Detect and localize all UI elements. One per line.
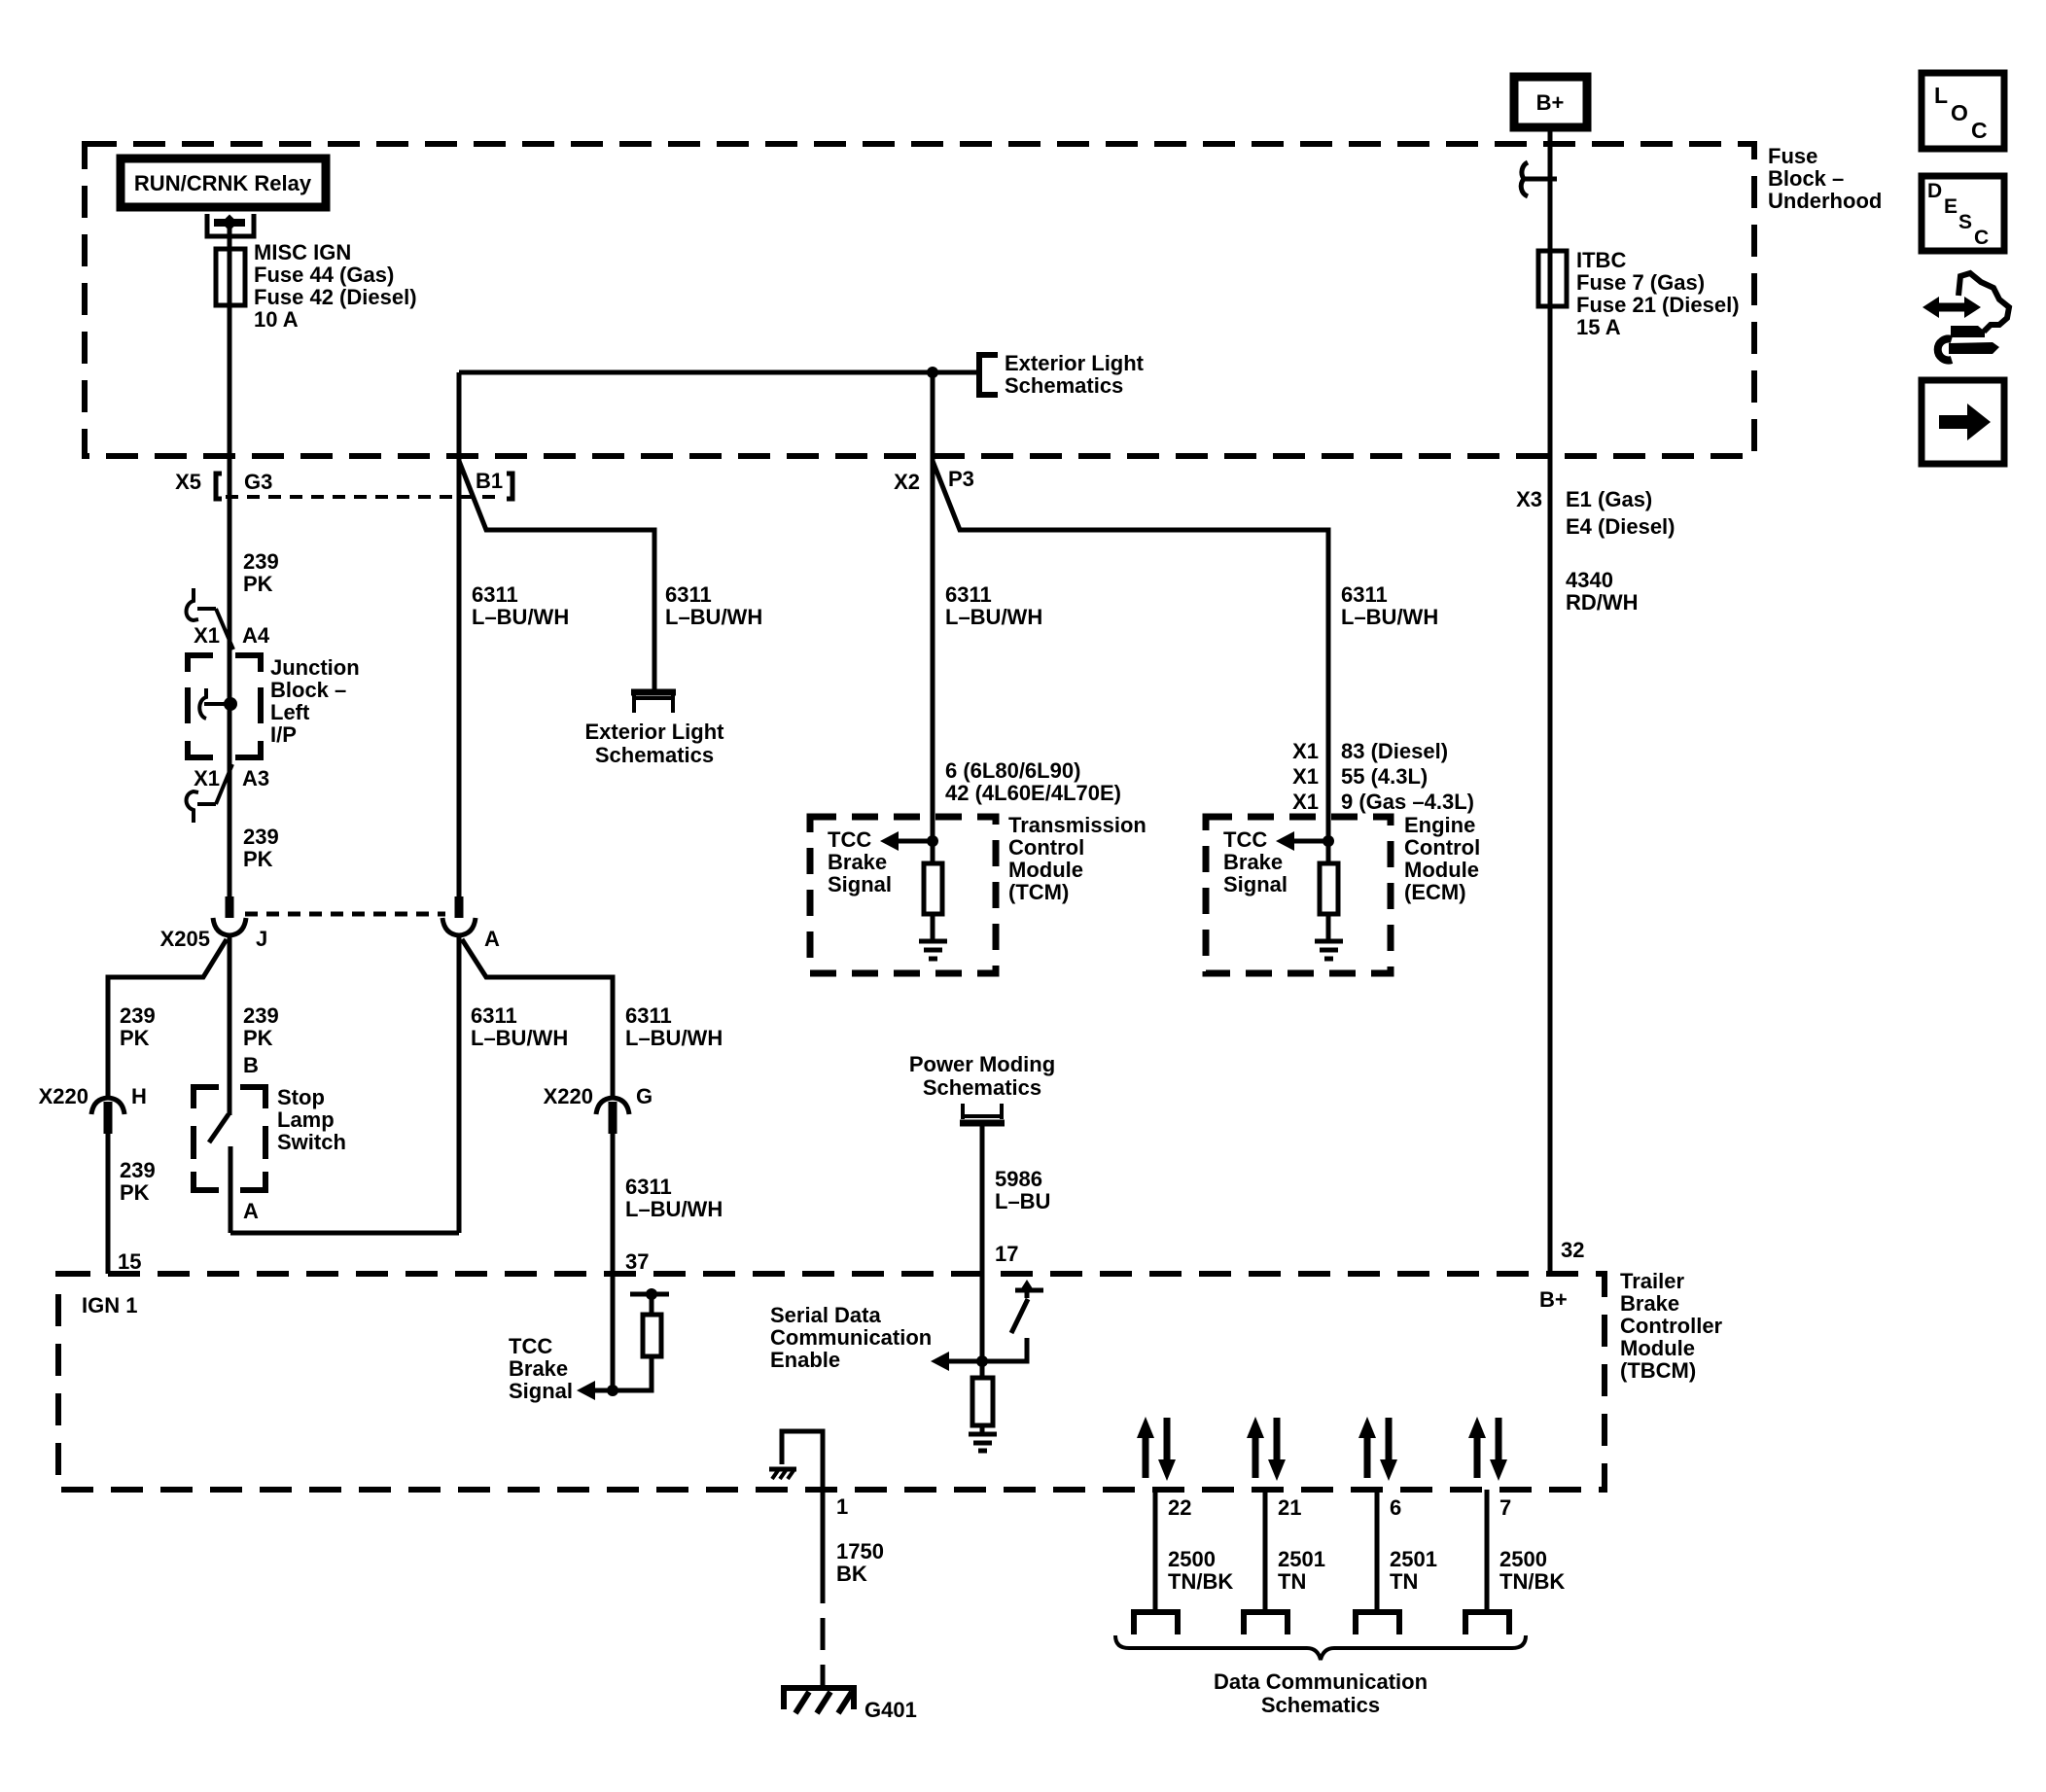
wire P3 offset diagonal to ECM drop	[933, 461, 1328, 841]
svg-text:RD/WH: RD/WH	[1566, 590, 1639, 615]
svg-text:Transmission: Transmission	[1008, 813, 1146, 837]
svg-text:X1: X1	[1292, 739, 1319, 763]
svg-text:Fuse 21 (Diesel): Fuse 21 (Diesel)	[1576, 293, 1740, 317]
svg-text:O: O	[1951, 100, 1968, 125]
wire resistor to ground (TCM)	[931, 914, 935, 940]
svg-text:P3: P3	[948, 467, 974, 491]
svg-text:(ECM): (ECM)	[1404, 880, 1466, 904]
svg-text:Brake: Brake	[1620, 1291, 1679, 1316]
wire junction to exterior light schematics bracket	[933, 370, 976, 375]
svg-text:Block –: Block –	[1768, 166, 1844, 191]
junction block internal connector	[199, 688, 206, 719]
svg-text:6311: 6311	[1341, 582, 1388, 607]
wire J branch to X220 H	[108, 939, 227, 1098]
connector X5/G3 brackets and dotted pass-through	[216, 474, 222, 499]
svg-text:X220: X220	[544, 1084, 593, 1108]
connector X1/A4	[187, 588, 199, 620]
ground (ECM)	[1315, 941, 1343, 959]
svg-text:MISC IGN: MISC IGN	[254, 240, 351, 264]
legend DESC box	[1922, 176, 2004, 251]
svg-text:E1 (Gas): E1 (Gas)	[1566, 487, 1652, 511]
svg-text:B: B	[243, 1053, 259, 1077]
svg-text:B+: B+	[1536, 90, 1565, 115]
svg-text:L–BU/WH: L–BU/WH	[625, 1026, 723, 1050]
RUN/CRNK Relay label box	[121, 158, 326, 207]
svg-text:X2: X2	[894, 470, 920, 494]
svg-text:Fuse 44 (Gas): Fuse 44 (Gas)	[254, 263, 394, 287]
svg-text:A: A	[243, 1199, 259, 1223]
svg-text:D: D	[1927, 180, 1942, 202]
connector X205 A	[455, 896, 464, 918]
svg-text:Switch: Switch	[277, 1130, 346, 1154]
svg-text:239: 239	[243, 549, 279, 574]
resistor (TBCM pin17)	[972, 1378, 993, 1425]
svg-text:L: L	[1934, 83, 1948, 108]
ground (TCM)	[919, 941, 947, 959]
ground G401	[784, 1688, 854, 1709]
legend forward arrow box	[1922, 380, 2004, 464]
wire X3 to TBCM pin 32	[1548, 456, 1553, 1274]
svg-text:42 (4L60E/4L70E): 42 (4L60E/4L70E)	[945, 781, 1121, 805]
svg-text:L–BU: L–BU	[995, 1189, 1050, 1213]
svg-text:I/P: I/P	[270, 722, 297, 747]
fuse block - underhood dashed box	[85, 144, 1754, 456]
svg-text:Module: Module	[1404, 858, 1479, 882]
wire G to TBCM pin 37	[611, 1134, 616, 1274]
wire pin 7 serial data	[1485, 1490, 1490, 1611]
svg-text:Junction: Junction	[270, 655, 360, 680]
serial data communication enable arrow	[948, 1359, 982, 1364]
terminator (pin6)	[1356, 1612, 1399, 1634]
svg-text:9 (Gas –4.3L): 9 (Gas –4.3L)	[1341, 790, 1474, 814]
terminator (pin7)	[1465, 1612, 1509, 1634]
svg-text:A: A	[484, 927, 500, 951]
svg-text:6: 6	[1390, 1495, 1401, 1520]
svg-text:RUN/CRNK Relay: RUN/CRNK Relay	[134, 171, 312, 195]
wire X2 drop from junction	[931, 372, 935, 841]
wire B1 offset diagonal to exterior-light drop	[459, 461, 654, 691]
svg-text:TCC: TCC	[828, 827, 871, 852]
svg-text:Schematics: Schematics	[923, 1075, 1041, 1100]
svg-text:6 (6L80/6L90): 6 (6L80/6L90)	[945, 758, 1080, 783]
svg-text:32: 32	[1561, 1238, 1584, 1262]
svg-text:G: G	[636, 1084, 653, 1108]
splice X205 connector J	[226, 896, 234, 918]
wire switch return to A drop	[230, 1231, 459, 1236]
svg-text:Module: Module	[1008, 858, 1083, 882]
resistor (TBCM pin37)	[643, 1315, 661, 1356]
legend wrench/connector icon	[1923, 273, 2009, 361]
off-page symbol exterior light schematics (drop)	[631, 689, 676, 696]
svg-text:L–BU/WH: L–BU/WH	[472, 605, 569, 629]
svg-text:239: 239	[120, 1158, 156, 1182]
svg-text:2500: 2500	[1168, 1547, 1216, 1571]
svg-text:Stop: Stop	[277, 1085, 325, 1109]
svg-text:S: S	[1958, 211, 1972, 233]
svg-text:L–BU/WH: L–BU/WH	[625, 1197, 723, 1221]
engine control module dashed box	[1206, 817, 1391, 973]
svg-text:X1: X1	[194, 623, 220, 648]
svg-text:Signal: Signal	[509, 1379, 573, 1403]
svg-text:2500: 2500	[1499, 1547, 1547, 1571]
wire power moding to TBCM pin 17	[980, 1126, 985, 1274]
ground (TBCM pin17)	[969, 1434, 997, 1451]
svg-text:7: 7	[1499, 1495, 1511, 1520]
trailer brake controller module dashed box	[58, 1274, 1605, 1490]
svg-text:H: H	[131, 1084, 147, 1108]
svg-text:Schematics: Schematics	[1005, 373, 1123, 398]
wire A branch to X220 G	[462, 939, 613, 1098]
wire pin 22 serial data	[1153, 1490, 1158, 1611]
svg-text:239: 239	[243, 825, 279, 849]
svg-text:5986: 5986	[995, 1167, 1042, 1191]
TCC brake signal arrow (TCM)	[897, 839, 933, 844]
wire resistor to internal rail	[650, 1294, 654, 1315]
svg-text:4340: 4340	[1566, 568, 1613, 592]
svg-text:L–BU/WH: L–BU/WH	[1341, 605, 1438, 629]
svg-text:E4 (Diesel): E4 (Diesel)	[1566, 514, 1676, 539]
resistor (ECM)	[1320, 863, 1338, 914]
svg-text:IGN 1: IGN 1	[82, 1293, 137, 1318]
svg-text:10 A: 10 A	[254, 307, 299, 332]
wire B+ to fusible link	[1548, 127, 1553, 251]
svg-text:A4: A4	[242, 623, 270, 648]
svg-text:Signal: Signal	[828, 872, 892, 896]
svg-text:Module: Module	[1620, 1336, 1695, 1360]
wire into ECM	[1326, 817, 1331, 863]
svg-text:6311: 6311	[665, 582, 712, 607]
svg-text:Trailer: Trailer	[1620, 1269, 1684, 1293]
svg-text:Fuse: Fuse	[1768, 144, 1817, 168]
wire pin 6 serial data	[1375, 1490, 1380, 1611]
wire H to TBCM pin 15	[106, 1134, 111, 1274]
brace data communication	[1115, 1635, 1526, 1660]
svg-text:C: C	[1974, 227, 1989, 249]
svg-text:E: E	[1944, 195, 1958, 218]
svg-text:Schematics: Schematics	[595, 743, 714, 767]
svg-text:2501: 2501	[1278, 1547, 1325, 1571]
fuse ITBC	[1538, 251, 1567, 306]
svg-text:Data Communication: Data Communication	[1214, 1669, 1428, 1694]
svg-text:ITBC: ITBC	[1576, 248, 1626, 272]
svg-text:PK: PK	[243, 572, 273, 596]
wire pin 37 internal	[611, 1274, 616, 1390]
svg-text:G3: G3	[244, 470, 272, 494]
svg-text:B+: B+	[1539, 1287, 1568, 1312]
svg-text:6311: 6311	[625, 1003, 672, 1028]
svg-text:6311: 6311	[625, 1175, 672, 1199]
TCC brake signal arrow (ECM)	[1292, 839, 1328, 844]
wire A down to switch return	[457, 935, 462, 1233]
svg-text:A3: A3	[242, 766, 269, 791]
svg-text:6311: 6311	[945, 582, 992, 607]
svg-text:55 (4.3L): 55 (4.3L)	[1341, 764, 1428, 789]
svg-text:PK: PK	[120, 1026, 150, 1050]
svg-text:Brake: Brake	[509, 1356, 568, 1381]
svg-text:Fuse 42 (Diesel): Fuse 42 (Diesel)	[254, 285, 417, 309]
svg-text:TCC: TCC	[509, 1334, 552, 1358]
terminator (pin22)	[1134, 1612, 1178, 1634]
off-page bracket Exterior Light Schematics (top)	[979, 355, 998, 395]
connector X1/A3	[187, 791, 199, 823]
svg-text:BK: BK	[836, 1562, 867, 1586]
svg-text:(TBCM): (TBCM)	[1620, 1358, 1696, 1383]
internal rail tick with node	[630, 1292, 669, 1297]
svg-text:J: J	[256, 927, 267, 951]
data link arrows pin 21	[1247, 1417, 1286, 1481]
svg-text:Power Moding: Power Moding	[909, 1052, 1055, 1076]
wire pin 21 serial data	[1263, 1490, 1268, 1611]
junction block - left I/P dashed box	[188, 655, 261, 757]
node pin17 junction	[976, 1355, 988, 1367]
wire junction to pull-up resistor (TBCM pin37)	[613, 1356, 652, 1390]
svg-text:37: 37	[625, 1249, 649, 1274]
svg-text:X1: X1	[1292, 790, 1319, 814]
svg-text:15 A: 15 A	[1576, 315, 1621, 339]
wire pin 1 internal to case ground	[782, 1431, 823, 1490]
svg-text:X5: X5	[175, 470, 201, 494]
svg-text:Engine: Engine	[1404, 813, 1475, 837]
svg-text:Enable: Enable	[770, 1348, 840, 1372]
node: top junction wire to exterior light tap	[459, 370, 933, 375]
svg-text:Exterior Light: Exterior Light	[1005, 351, 1145, 375]
wire B1 drop from tap	[457, 372, 462, 918]
svg-text:Communication: Communication	[770, 1325, 932, 1350]
wire pin 1 to G401	[821, 1490, 826, 1603]
svg-text:X3: X3	[1516, 487, 1542, 511]
svg-text:(TCM): (TCM)	[1008, 880, 1069, 904]
svg-text:239: 239	[120, 1003, 156, 1028]
svg-text:L–BU/WH: L–BU/WH	[665, 605, 762, 629]
svg-text:TN/BK: TN/BK	[1168, 1569, 1233, 1594]
svg-text:TN: TN	[1278, 1569, 1306, 1594]
svg-text:Brake: Brake	[1223, 850, 1283, 874]
svg-text:Fuse 7 (Gas): Fuse 7 (Gas)	[1576, 270, 1705, 295]
connector X220 G	[596, 1098, 629, 1114]
node TCM junction	[927, 835, 938, 847]
transmission control module dashed box	[810, 817, 996, 973]
svg-text:PK: PK	[243, 1026, 273, 1050]
svg-text:22: 22	[1168, 1495, 1191, 1520]
svg-text:TCC: TCC	[1223, 827, 1267, 852]
relay contact (RUN/CRNK relay output)	[207, 214, 254, 236]
svg-text:PK: PK	[120, 1180, 150, 1205]
svg-text:2501: 2501	[1390, 1547, 1437, 1571]
svg-text:B1: B1	[476, 469, 503, 493]
svg-text:X1: X1	[194, 766, 220, 791]
connector X220 H	[91, 1098, 124, 1114]
svg-text:Block –: Block –	[270, 678, 346, 702]
svg-text:X1: X1	[1292, 764, 1319, 789]
wire resistor to ground (ECM)	[1326, 914, 1331, 940]
svg-text:6311: 6311	[472, 582, 518, 607]
svg-text:TN/BK: TN/BK	[1499, 1569, 1565, 1594]
node pin37 junction	[607, 1385, 618, 1396]
svg-text:L–BU/WH: L–BU/WH	[945, 605, 1042, 629]
svg-text:Control: Control	[1008, 835, 1084, 860]
svg-text:Schematics: Schematics	[1261, 1693, 1380, 1717]
fuse MISC IGN	[216, 249, 245, 305]
wire ITBC to X3	[1548, 306, 1553, 456]
svg-text:21: 21	[1278, 1495, 1301, 1520]
data link arrows pin 22	[1137, 1417, 1176, 1481]
svg-text:X220: X220	[39, 1084, 88, 1108]
svg-text:1: 1	[836, 1494, 848, 1519]
stop lamp switch dashed box	[194, 1087, 265, 1190]
svg-text:Lamp: Lamp	[277, 1107, 335, 1132]
svg-text:G401: G401	[864, 1698, 917, 1722]
data link arrows pin 7	[1468, 1417, 1507, 1481]
svg-text:1750: 1750	[836, 1539, 884, 1564]
svg-text:Controller: Controller	[1620, 1314, 1723, 1338]
wire relay to fuse	[228, 223, 232, 249]
terminator (pin21)	[1244, 1612, 1288, 1634]
TCC brake signal arrow (TBCM)	[594, 1388, 613, 1393]
svg-text:TN: TN	[1390, 1569, 1418, 1594]
switch branch (pin17)	[982, 1338, 1027, 1361]
svg-text:6311: 6311	[471, 1003, 517, 1028]
svg-text:Serial Data: Serial Data	[770, 1303, 881, 1327]
stop lamp switch blade	[209, 1114, 229, 1142]
dotted line X205 J to A	[245, 912, 445, 917]
fusible link symbol	[1522, 177, 1557, 182]
B+ terminal box	[1514, 77, 1587, 127]
svg-text:Brake: Brake	[828, 850, 887, 874]
wire into TCM	[931, 817, 935, 863]
svg-text:Left: Left	[270, 700, 310, 724]
chassis ground (internal)	[769, 1467, 796, 1472]
wire pin 17 internal	[980, 1274, 985, 1378]
svg-text:L–BU/WH: L–BU/WH	[471, 1026, 568, 1050]
svg-text:Underhood: Underhood	[1768, 189, 1882, 213]
switch blade (pin17)	[1011, 1299, 1028, 1333]
svg-text:C: C	[1971, 118, 1988, 143]
svg-text:Exterior Light: Exterior Light	[584, 720, 724, 744]
resistor (TCM)	[924, 863, 942, 914]
svg-text:Control: Control	[1404, 835, 1480, 860]
data link arrows pin 6	[1358, 1417, 1397, 1481]
wire switch output A	[229, 1146, 233, 1233]
svg-text:PK: PK	[243, 847, 273, 871]
wire J to stop lamp switch	[228, 935, 232, 1115]
svg-text:17: 17	[995, 1242, 1018, 1266]
node ECM junction	[1323, 835, 1334, 847]
svg-text:239: 239	[243, 1003, 279, 1028]
wire resistor to ground (pin17)	[980, 1425, 985, 1433]
legend LOC box	[1922, 73, 2004, 149]
svg-text:Signal: Signal	[1223, 872, 1288, 896]
svg-text:15: 15	[118, 1249, 141, 1274]
svg-text:83 (Diesel): 83 (Diesel)	[1341, 739, 1448, 763]
svg-text:X205: X205	[160, 927, 210, 951]
wire fuse output down to X5	[228, 305, 232, 900]
